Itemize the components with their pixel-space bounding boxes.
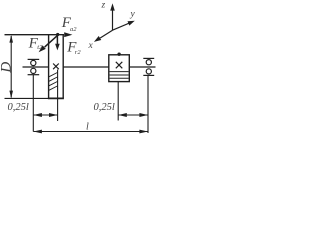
bevel gear cross mark (force into page) [53, 64, 59, 70]
coordinate axis x [94, 30, 113, 42]
dimension l [33, 130, 148, 134]
bevel gear (left) body [48, 35, 64, 99]
left bearing [28, 59, 40, 74]
dimension D [9, 35, 13, 98]
coordinate axis z [110, 3, 115, 30]
svg-text:0,25l: 0,25l [94, 102, 115, 113]
bevel gear (left) bottom reference line [5, 97, 49, 99]
force application dot (left gear) [56, 33, 59, 36]
right bearing [143, 58, 154, 75]
dimension 0.25l (left) [33, 113, 57, 117]
right bearing extension line [147, 75, 149, 133]
force application dot (right gear) [117, 53, 120, 56]
spur gear extension line [117, 82, 119, 121]
svg-text:y: y [130, 10, 136, 20]
force F_a2 arrow [64, 32, 72, 37]
force F_r2 arrow [55, 35, 60, 50]
force F_t2 arrow [39, 35, 58, 52]
svg-text:z: z [101, 1, 106, 11]
svg-text:t2: t2 [37, 44, 43, 51]
bevel gear hatching [49, 72, 58, 90]
svg-text:a2: a2 [70, 26, 77, 33]
spur gear (right) body [109, 55, 130, 82]
svg-text:l: l [86, 122, 89, 133]
left bearing extension line [32, 75, 34, 132]
spur gear inner horizontal lines [110, 72, 129, 79]
svg-text:0,25l: 0,25l [8, 102, 29, 113]
bevel gear force-point extension line [57, 70, 59, 122]
svg-text:x: x [88, 41, 94, 51]
shaft [23, 66, 156, 68]
bevel gear (left) top reference line [5, 34, 65, 36]
svg-text:D: D [0, 62, 15, 74]
svg-text:r2: r2 [75, 49, 82, 56]
coordinate axis y [113, 21, 135, 30]
dimension 0.25l (right) [118, 113, 148, 117]
spur gear cross mark (force into page) [116, 62, 123, 69]
